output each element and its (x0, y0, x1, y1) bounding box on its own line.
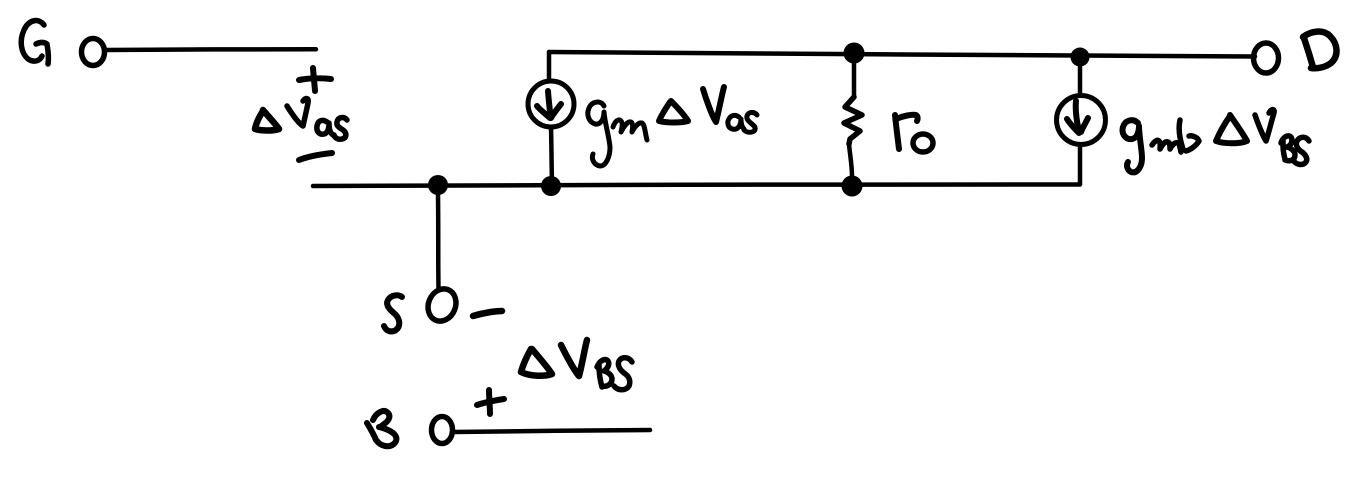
plus sign VGS (299, 68, 331, 91)
junction node ro bottom (842, 176, 863, 197)
wire gm top drop (547, 52, 552, 81)
current source gmb (1057, 96, 1106, 145)
wire drain top (549, 52, 1255, 57)
node B label (367, 411, 396, 446)
junction node drain gmb (1071, 48, 1090, 67)
terminal B (432, 417, 453, 444)
label ro (895, 115, 933, 152)
terminal G (82, 39, 105, 66)
minus sign BS (473, 311, 502, 316)
wire gmb bottom (1078, 145, 1083, 184)
label gm dVGS (588, 87, 757, 166)
wire source row (313, 184, 1080, 186)
node S label (384, 295, 402, 331)
wire to S terminal (436, 195, 441, 288)
wire G (105, 47, 316, 52)
wire gmb top (1078, 67, 1083, 95)
junction node gm bottom (541, 176, 561, 196)
wire B (453, 430, 650, 432)
junction node S-row left (428, 175, 448, 195)
terminal D (1254, 43, 1279, 73)
node D label (1303, 32, 1337, 69)
wire gm bottom (551, 127, 552, 183)
arrow gmb (1067, 101, 1088, 133)
junction node ro top (844, 43, 865, 64)
label gmb dVBS (1123, 110, 1309, 173)
label dVBS (521, 340, 632, 390)
arrow gm (537, 91, 561, 118)
node G label (21, 21, 48, 64)
resistor ro (844, 63, 862, 176)
plus sign BS (477, 390, 504, 414)
current source gm (528, 81, 574, 127)
minus sign VGS (299, 153, 332, 160)
terminal S (423, 285, 460, 326)
label dVGS (255, 99, 347, 140)
